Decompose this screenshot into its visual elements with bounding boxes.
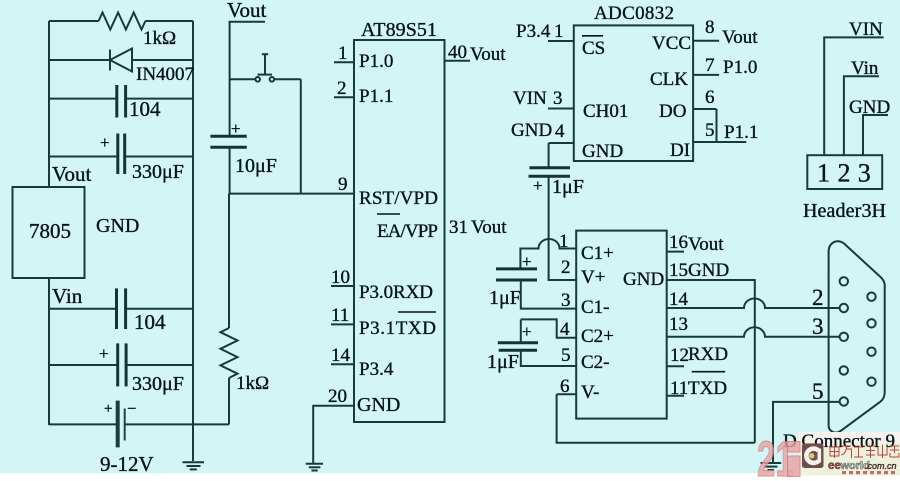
svg-text:1: 1	[554, 21, 564, 42]
ground (power mid)	[183, 462, 205, 469]
wire left vertical (bottom)	[48, 278, 50, 425]
svg-text:Header3H: Header3H	[803, 200, 886, 222]
svg-text:RXD: RXD	[688, 344, 728, 365]
adc U3 ADC0832	[574, 25, 693, 161]
svg-text:IN4007: IN4007	[136, 64, 194, 85]
svg-text:11: 11	[670, 378, 688, 399]
wire below 10uF	[229, 147, 231, 194]
resistor R1 1kΩ	[99, 13, 146, 30]
wire ADC pin4 down	[548, 143, 550, 168]
logo background	[798, 432, 900, 476]
svg-text:14: 14	[669, 289, 689, 310]
svg-text:6: 6	[560, 376, 570, 397]
svg-text:6: 6	[705, 87, 715, 108]
pin 13 wire (hop) to DB9 pin3	[667, 327, 840, 337]
svg-text:+: +	[522, 322, 532, 341]
svg-text:ADC0832: ADC0832	[594, 3, 674, 24]
capacitor C4 330uF (bottom, polarized)	[118, 343, 126, 386]
pin 1 wire (hop over V+ wire)	[520, 239, 576, 269]
pin 3 wire	[521, 280, 576, 309]
svg-text:2: 2	[812, 285, 824, 310]
svg-text:ee: ee	[828, 460, 841, 472]
svg-text:RST/VPD: RST/VPD	[359, 188, 438, 209]
svg-text:104: 104	[129, 97, 161, 121]
pin 14 wire (hop) to DB9 pin2	[667, 299, 840, 309]
node GND (header pin3)	[849, 97, 890, 155]
wire vertical to R2	[228, 194, 230, 328]
svg-text:GND: GND	[623, 269, 664, 290]
svg-text:1: 1	[338, 43, 348, 64]
ground (DB9 pin5)	[761, 463, 782, 470]
wire 104 row (bottom)	[49, 308, 193, 310]
capacitor C7 1uF	[496, 269, 537, 280]
pin 40 stub	[445, 60, 471, 62]
svg-text:Vout: Vout	[470, 44, 506, 65]
svg-text:15: 15	[669, 260, 688, 281]
wire left vertical (top)	[48, 21, 50, 187]
DB9 hole 2	[840, 304, 848, 312]
pin 16 stub	[667, 251, 684, 253]
svg-text:3: 3	[561, 290, 571, 311]
logo small red slogan dots	[842, 471, 895, 474]
svg-text:–: –	[127, 400, 136, 416]
logo square with C	[802, 444, 824, 469]
connector J1 DB9 outline	[829, 241, 885, 432]
svg-text:9-12V: 9-12V	[100, 452, 154, 476]
svg-text:P1.1: P1.1	[724, 122, 758, 143]
pin 4 wire (jog)	[521, 319, 576, 337]
svg-text:VIN: VIN	[513, 88, 547, 109]
DB9 hole 3	[840, 333, 848, 341]
svg-text:GND: GND	[582, 141, 623, 162]
DB9 hole 9	[867, 378, 875, 386]
svg-text:16: 16	[669, 232, 688, 253]
svg-text:+: +	[104, 401, 112, 417]
capacitor C5 10uF	[210, 136, 246, 147]
svg-text:1kΩ: 1kΩ	[236, 373, 269, 394]
wire R2 bottom	[228, 378, 230, 424]
pin 5 stub	[693, 141, 746, 143]
svg-text:7: 7	[705, 55, 715, 76]
svg-text:GND: GND	[688, 260, 729, 281]
capacitor C3 104 (bottom)	[117, 288, 126, 329]
svg-text:4: 4	[555, 121, 565, 142]
logo Chinese text 电子工程世界	[830, 445, 899, 458]
svg-text:TXD: TXD	[688, 378, 727, 399]
svg-text:+: +	[99, 344, 109, 363]
svg-text:+: +	[100, 133, 110, 152]
wire Vout stub	[229, 21, 265, 23]
svg-text:11: 11	[331, 305, 349, 326]
node Vin (header pin2)	[844, 58, 879, 155]
svg-text:10: 10	[331, 267, 350, 288]
svg-text:Vout: Vout	[52, 162, 91, 186]
DB9 hole 1	[840, 277, 848, 285]
pin 6 stub	[557, 393, 577, 395]
pin 8 stub	[693, 40, 719, 42]
pin 4 stub (ADC)	[549, 142, 574, 144]
svg-text:GND: GND	[357, 394, 400, 416]
DB9 hole 7	[867, 319, 875, 327]
wire 330uF row (bottom)	[49, 364, 193, 366]
capacitor C6 1uF (ADC GND)	[529, 168, 571, 177]
svg-text:1μF: 1μF	[489, 287, 521, 309]
regulator U1 7805	[13, 187, 85, 278]
svg-text:+: +	[231, 119, 241, 138]
capacitor C8 1uF	[498, 343, 538, 351]
svg-text:7805: 7805	[29, 219, 71, 243]
pin 3 stub (ADC)	[548, 108, 574, 110]
wire battery row	[49, 423, 229, 425]
node VIN (header pin1)	[824, 19, 883, 155]
DB9 hole 5	[840, 397, 848, 405]
svg-text:1: 1	[817, 159, 830, 188]
svg-text:13: 13	[669, 314, 688, 335]
logo 21ic big letters	[757, 431, 794, 481]
svg-text:3: 3	[858, 159, 871, 188]
svg-text:9: 9	[338, 174, 348, 195]
DB9 hole 6	[867, 293, 875, 301]
capacitor C2 330uF (top, polarized)	[118, 134, 125, 175]
node TXD (U4 pin11, overline)	[688, 372, 727, 399]
driver U4 MAX232	[576, 231, 667, 419]
switch S1 (reset button)	[230, 54, 301, 81]
svg-text:5: 5	[812, 379, 824, 404]
svg-text:14: 14	[331, 345, 351, 366]
wire 330uF row (top)	[49, 156, 193, 158]
pin 12 stub	[667, 365, 684, 367]
pin 20 wire	[313, 406, 354, 464]
svg-text:3: 3	[812, 314, 824, 339]
svg-text:P3.4: P3.4	[359, 359, 394, 380]
wire reset row to RST pin	[230, 193, 354, 195]
label P3.1TXD (TXD overline)	[359, 312, 436, 339]
svg-text:330μF: 330μF	[132, 373, 184, 395]
svg-text:DI: DI	[670, 140, 690, 161]
DB9 hole 8	[867, 348, 875, 356]
svg-text:Vout: Vout	[722, 27, 758, 48]
pin 6 stub	[693, 108, 716, 110]
svg-text:40: 40	[448, 42, 467, 63]
svg-text:10μF: 10μF	[235, 155, 277, 177]
wire C8 top connect	[520, 319, 522, 342]
header J2 Header3H box	[807, 155, 882, 189]
wire diode row	[49, 59, 193, 61]
svg-text:P1.0: P1.0	[359, 51, 393, 72]
svg-text:C1+: C1+	[581, 243, 614, 264]
svg-text:.com.cn: .com.cn	[865, 461, 897, 471]
capacitor C1 104 (top)	[117, 85, 126, 118]
svg-text:20: 20	[328, 386, 347, 407]
svg-text:C2+: C2+	[581, 326, 614, 347]
svg-text:2: 2	[838, 159, 851, 188]
svg-text:5: 5	[561, 345, 571, 366]
svg-text:1kΩ: 1kΩ	[143, 28, 176, 49]
svg-text:C1-: C1-	[581, 297, 610, 318]
svg-text:V-: V-	[581, 382, 599, 403]
wire C6 down to V+ (crosses pin1 row)	[549, 176, 577, 280]
wire 104 row (top)	[49, 98, 193, 100]
diode D1 IN4007	[110, 49, 132, 72]
wire pin6-pin5 join	[716, 109, 718, 142]
svg-text:Vout: Vout	[688, 234, 724, 255]
svg-text:C2-: C2-	[581, 352, 610, 373]
label EA/VPP (EA overline)	[377, 214, 438, 242]
svg-text:5: 5	[705, 120, 715, 141]
svg-text:330μF: 330μF	[132, 161, 184, 183]
svg-text:2: 2	[561, 257, 571, 278]
svg-text:EA/VPP: EA/VPP	[377, 221, 438, 242]
battery BT1 9-12V	[118, 401, 125, 448]
svg-text:4: 4	[560, 319, 570, 340]
ground (U2 pin20)	[306, 464, 323, 471]
svg-text:3: 3	[553, 88, 563, 109]
svg-text:P1.1: P1.1	[359, 86, 393, 107]
pin 1 stub	[334, 61, 354, 63]
pin 1 stub (ADC)	[548, 40, 574, 42]
svg-text:DO: DO	[659, 101, 686, 122]
svg-text:31: 31	[449, 217, 468, 238]
pin 5 wire	[521, 350, 576, 366]
wire DB9 pin5 to ground	[773, 402, 840, 462]
mcu U2 AT89S51	[354, 40, 445, 422]
DB9 hole 4	[840, 366, 848, 374]
svg-text:2: 2	[337, 78, 347, 99]
wire V- loop to GND vertical	[557, 394, 755, 442]
pin 10 stub	[331, 285, 354, 287]
svg-text:104: 104	[134, 310, 166, 334]
pin 7 stub	[693, 74, 719, 76]
svg-text:12: 12	[670, 345, 689, 366]
svg-text:+: +	[533, 176, 543, 195]
pin 11 stub	[667, 395, 684, 397]
logo eeworld.com.cn	[828, 460, 897, 472]
svg-text:AT89S51: AT89S51	[361, 19, 437, 41]
pin 2 stub	[334, 96, 354, 98]
wire switch right vertical	[300, 79, 302, 193]
svg-text:CS: CS	[582, 38, 605, 59]
svg-text:Vout: Vout	[227, 0, 266, 22]
svg-text:Vin: Vin	[52, 284, 83, 308]
svg-text:CLK: CLK	[650, 69, 688, 90]
svg-text:GND: GND	[511, 120, 552, 141]
svg-text:V+: V+	[581, 267, 605, 288]
resistor R2 1kΩ (vertical)	[221, 328, 238, 378]
svg-text:VCC: VCC	[652, 33, 691, 54]
svg-text:P3.4: P3.4	[516, 21, 551, 42]
svg-text:GND: GND	[96, 215, 139, 237]
svg-text:CH01: CH01	[583, 101, 628, 122]
svg-text:P3.0RXD: P3.0RXD	[359, 282, 433, 303]
pin 15 wire	[667, 280, 755, 443]
wire top row	[49, 20, 193, 22]
svg-text:1μF: 1μF	[552, 176, 584, 198]
pin 11 stub	[331, 323, 354, 325]
svg-text:P1.0: P1.0	[723, 57, 757, 78]
wire right vertical of power loop	[192, 21, 194, 461]
svg-text:P3.1TXD: P3.1TXD	[359, 318, 436, 339]
svg-text:1: 1	[559, 231, 569, 252]
pin 14 stub	[331, 363, 354, 365]
svg-text:8: 8	[705, 17, 715, 38]
label CS (overline)	[582, 36, 605, 59]
wire vertical from Vout to 10uF	[229, 22, 231, 136]
svg-text:1μF: 1μF	[487, 351, 519, 373]
svg-text:Vout: Vout	[471, 217, 507, 238]
